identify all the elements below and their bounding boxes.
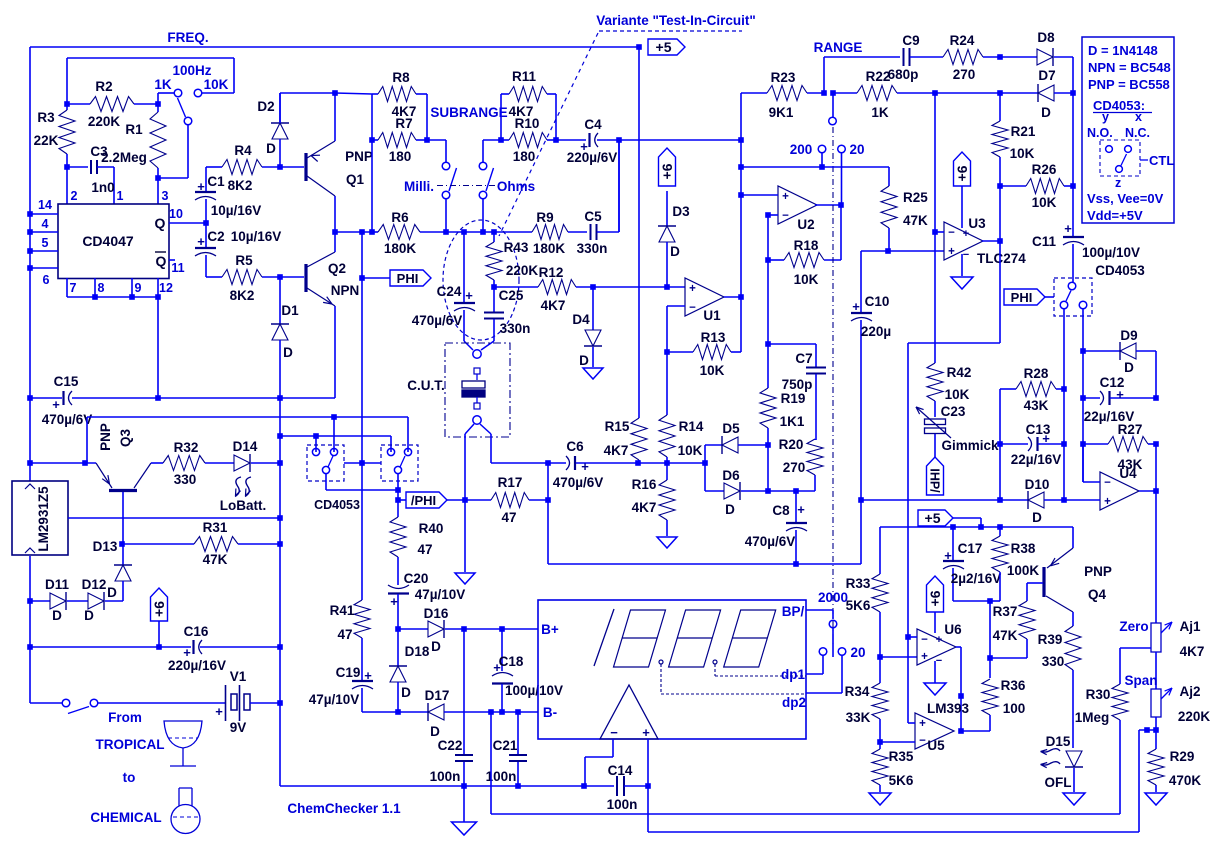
capacitor C10 [851, 312, 872, 314]
junction x464 y786 [461, 783, 467, 789]
U3 ground stub [961, 254, 963, 276]
wire R28 left corner [999, 389, 1001, 444]
CD4053 switch dashed box right [1054, 278, 1092, 316]
junction D10 right [1061, 497, 1067, 503]
resistor R19 [767, 344, 769, 388]
pin 12 wire [157, 278, 159, 297]
pin 14 wire [30, 213, 58, 215]
LED arrows D15 [1042, 749, 1061, 752]
wire bracket down to bus [371, 140, 373, 232]
main ground [452, 822, 477, 835]
svg-text:100µ/10V: 100µ/10V [1082, 245, 1140, 260]
junction R5 right base Q2 [277, 274, 283, 280]
wire U2 output [815, 204, 841, 206]
junction pin5 [27, 248, 33, 254]
box2 lever [400, 456, 405, 467]
svg-text:D12: D12 [82, 577, 107, 592]
svg-text:R26: R26 [1032, 162, 1057, 177]
junction rail x158 [155, 395, 161, 401]
svg-text:U3: U3 [968, 216, 986, 231]
op-amp U2 [778, 186, 817, 224]
wire D11-D12 [67, 600, 88, 602]
capacitor C17 [952, 527, 954, 560]
svg-text:Q: Q [156, 253, 167, 269]
svg-text:R31: R31 [203, 520, 228, 535]
svg-text:D: D [1032, 510, 1042, 525]
svg-text:1Meg: 1Meg [1075, 710, 1110, 725]
svg-text:+: + [1104, 496, 1111, 508]
junction x362 y278 PHI tap [359, 275, 365, 281]
svg-text:+: + [642, 725, 650, 740]
wire x1156 down to pot [1155, 444, 1157, 491]
svg-text:9: 9 [135, 281, 142, 295]
svg-text:D4: D4 [572, 312, 590, 327]
resistor R1 [157, 104, 159, 112]
resistor R16 [666, 463, 668, 480]
box1 contact bottom [322, 466, 329, 473]
svg-text:FREQ.: FREQ. [167, 30, 208, 45]
resistor R8 [372, 93, 378, 95]
svg-text:R18: R18 [794, 238, 819, 253]
svg-text:220K: 220K [88, 114, 121, 129]
wire D8 corner down [1072, 57, 1074, 93]
svg-text:NPN: NPN [331, 283, 360, 298]
wire dp2 link [841, 655, 843, 693]
resistor R6 [378, 225, 420, 240]
junction x30 y647 [27, 644, 33, 650]
wire Q3 base net y463 [30, 462, 96, 464]
wire R7 to milli contact [427, 139, 446, 141]
resistor R20 [807, 439, 823, 475]
svg-text:200: 200 [790, 142, 813, 157]
junction x446 y232 [443, 229, 449, 235]
capacitor C18 [501, 629, 503, 671]
svg-text:R42: R42 [947, 365, 972, 380]
svg-text:+: + [581, 459, 589, 474]
svg-text:100n: 100n [607, 797, 638, 812]
svg-text:D17: D17 [425, 688, 450, 703]
svg-text:330: 330 [1042, 654, 1065, 669]
wire Q4 base to R37 [1026, 583, 1028, 601]
transistor Q3 PNP [96, 463, 112, 488]
svg-text:7: 7 [70, 281, 77, 295]
switch S2 contact a [62, 699, 70, 707]
wire R30 top corner [1120, 647, 1151, 649]
junction +9 y647 [156, 644, 162, 650]
wire x768 feedback vertical [767, 260, 769, 344]
svg-text:C4: C4 [584, 117, 602, 132]
svg-text:100µ/10V: 100µ/10V [505, 683, 563, 698]
resistor R27 [1083, 443, 1108, 445]
box2 contact bottom [394, 466, 401, 473]
svg-text:−: − [782, 210, 789, 222]
junction x280 y647 [277, 644, 283, 650]
svg-text:R22: R22 [866, 69, 891, 84]
svg-text:+: + [197, 179, 205, 194]
svg-text:C8: C8 [772, 503, 790, 518]
svg-text:10K: 10K [1010, 146, 1035, 161]
svg-text:470µ/6V: 470µ/6V [412, 313, 463, 328]
crystal small square bottom [476, 397, 478, 403]
switch ohms contact top [479, 162, 487, 170]
capacitor C4 [588, 133, 590, 147]
svg-text:D: D [670, 244, 680, 259]
junction C8 top [793, 488, 799, 494]
svg-text:47K: 47K [993, 628, 1018, 643]
svg-text:+: + [1064, 221, 1072, 236]
svg-text:C3: C3 [90, 144, 108, 159]
svg-text:100n: 100n [430, 769, 461, 784]
svg-text:D18: D18 [405, 644, 430, 659]
svg-text:220K: 220K [1178, 709, 1211, 724]
wire R37 bottom [990, 657, 1027, 659]
junction base-D13 node [119, 541, 125, 547]
wire bottom rail y786 [280, 785, 614, 787]
svg-text:1K: 1K [154, 77, 172, 92]
junction R27 right [1153, 441, 1159, 447]
svg-text:330n: 330n [500, 321, 531, 336]
resistor R14 [666, 352, 668, 415]
svg-text:220µ: 220µ [861, 324, 891, 339]
wire R38 bottom corner [990, 600, 1000, 602]
box1 lever [328, 456, 333, 467]
junction D14 right [277, 460, 283, 466]
info dashed switch box [1100, 140, 1140, 176]
svg-text:+: + [948, 246, 955, 258]
svg-text:22µ/16V: 22µ/16V [1011, 452, 1062, 467]
mech link dashdot [437, 185, 495, 187]
junction D10 left [997, 497, 1003, 503]
svg-text:9+: 9+ [152, 601, 168, 617]
+9 flag lower-left [158, 621, 160, 647]
junction +5 drop [978, 524, 984, 530]
wire D5-D6 join vertical [767, 445, 769, 491]
wire x408 to box2 [407, 417, 409, 452]
wire Q2 collector up [334, 232, 336, 252]
svg-text:22K: 22K [34, 133, 59, 148]
diode D11 [50, 593, 66, 609]
svg-text:10µ/16V: 10µ/16V [211, 203, 262, 218]
diode D9 [1083, 350, 1120, 352]
svg-text:+: + [944, 548, 952, 563]
svg-text:33K: 33K [846, 710, 871, 725]
svg-text:C21: C21 [493, 738, 518, 753]
box1 contact topleft [312, 448, 319, 455]
junction U3 out [997, 238, 1003, 244]
wire bus y167 [741, 166, 889, 168]
svg-text:dp1: dp1 [781, 667, 805, 682]
svg-text:Zero: Zero [1119, 619, 1148, 634]
info box [1082, 37, 1174, 223]
opamp U7 display [600, 685, 658, 739]
junction D9 left [1080, 348, 1086, 354]
switch S2 lever [68, 707, 89, 714]
switch S1a contact 10K [194, 89, 202, 97]
resistor R26 [1000, 185, 1026, 187]
diode D7 [1038, 85, 1054, 101]
wire y436 net [280, 435, 391, 437]
switch range contact 200 [818, 145, 826, 153]
svg-text:R11: R11 [512, 69, 537, 84]
CD4053 dashed box1 [307, 445, 344, 481]
wire R10 to C4 [556, 139, 586, 141]
svg-text:8: 8 [98, 281, 105, 295]
junction pin4 [27, 229, 33, 235]
svg-text:C25: C25 [499, 288, 524, 303]
switch 2000 contact b [838, 648, 846, 656]
svg-text:PHI: PHI [1011, 290, 1033, 305]
svg-text:R10: R10 [515, 116, 540, 131]
svg-text:−: − [963, 249, 969, 261]
resistor R30 [1119, 648, 1121, 684]
wire left vertical rail [29, 47, 31, 214]
pin 7 wire [66, 278, 68, 297]
info contact y [1106, 146, 1113, 153]
svg-text:2: 2 [71, 189, 78, 203]
CUT top contact [473, 350, 481, 358]
svg-text:D6: D6 [722, 468, 740, 483]
svg-text:R27: R27 [1118, 422, 1143, 437]
junction C7 tap [765, 341, 771, 347]
svg-text:1n0: 1n0 [91, 180, 114, 195]
wire C16 rail y647 [30, 646, 191, 648]
wire Q1 emitter up [334, 93, 336, 141]
junction R2 left [64, 101, 70, 107]
junction R10 right [553, 137, 559, 143]
wire U3 output [982, 240, 1000, 242]
svg-text:D3: D3 [672, 204, 690, 219]
svg-text:D: D [283, 345, 293, 360]
op-amp U1 [685, 278, 724, 316]
resistor R10 [501, 139, 509, 141]
svg-text:−: − [936, 655, 942, 667]
+5 flag mid [918, 510, 953, 526]
svg-text:9+: 9+ [660, 164, 676, 180]
junction C8 bottom [793, 561, 799, 567]
R10R11 right bracket [555, 94, 557, 140]
capacitor C1 [205, 167, 207, 191]
wire x935 vertical [934, 93, 936, 232]
svg-text:R38: R38 [1011, 541, 1036, 556]
wire switch left leg x1064 [1063, 309, 1065, 501]
svg-text:R3: R3 [37, 110, 55, 125]
svg-text:D9: D9 [1120, 328, 1137, 343]
svg-text:470µ/6V: 470µ/6V [42, 412, 93, 427]
resistor R7 [372, 139, 378, 141]
junction D5 right [765, 442, 771, 448]
wire 200 contact down [821, 153, 823, 167]
resistor R34 [879, 657, 881, 683]
svg-text:y: y [1102, 110, 1109, 124]
svg-text:3: 3 [162, 189, 169, 203]
svg-text:PHI: PHI [397, 271, 419, 286]
svg-text:12: 12 [159, 281, 173, 295]
svg-text:CD4053: CD4053 [314, 498, 360, 512]
wire x908 down [907, 343, 909, 637]
svg-text:R12: R12 [539, 265, 564, 280]
wire x1000 U3out vertical [999, 186, 1001, 241]
capacitor C13 [1000, 443, 1028, 445]
transistor Q2 NPN [280, 276, 304, 278]
junction R33 bottom [877, 654, 883, 660]
wire C7 loop top [768, 343, 816, 345]
junction R24-D8 [997, 54, 1003, 60]
U3 power +9 flag [954, 152, 971, 186]
svg-text:R24: R24 [950, 33, 975, 48]
junction R12 right [590, 284, 596, 290]
junction R7 left [369, 137, 375, 143]
op-amp U4 [1100, 472, 1139, 510]
svg-text:R7: R7 [395, 116, 412, 131]
junction Q-C1-C2 [203, 220, 209, 226]
wire D12 to D13 [105, 600, 123, 602]
chemical flask icon [179, 788, 192, 806]
svg-text:PNP: PNP [1084, 564, 1112, 579]
svg-text:C7: C7 [795, 351, 812, 366]
junction U2 minus corner [765, 212, 771, 218]
svg-text:R37: R37 [993, 604, 1018, 619]
svg-text:R16: R16 [632, 477, 657, 492]
wire C14 net to pots [647, 786, 649, 832]
wire range common stub [832, 93, 834, 117]
resistor R43 [493, 232, 495, 242]
junction C4 right [616, 137, 622, 143]
wire pin2 [66, 167, 68, 204]
svg-text:D11: D11 [45, 577, 70, 592]
capacitor C11 [1063, 236, 1084, 238]
svg-text:D13: D13 [93, 539, 118, 554]
tropical glass icon [164, 721, 202, 748]
svg-text:220µ/16V: 220µ/16V [168, 658, 226, 673]
variante dashed ellipse [443, 220, 519, 340]
svg-text:10K: 10K [1032, 195, 1057, 210]
box2 contact topleft [387, 448, 394, 455]
svg-text:470µ/6V: 470µ/6V [553, 475, 604, 490]
svg-text:D: D [725, 502, 735, 517]
wire U1 minus [667, 305, 685, 307]
svg-text:C11: C11 [1032, 234, 1057, 249]
svg-text:+: + [689, 283, 696, 295]
junction rail x30 [27, 395, 33, 401]
wire R6 to R9 [446, 231, 532, 233]
wire pot Aj2 to R29 [1155, 717, 1157, 749]
info CTL stub [1140, 159, 1148, 161]
svg-text:+: + [797, 502, 805, 517]
junction C12 right [1153, 395, 1159, 401]
svg-text:C14: C14 [608, 763, 633, 778]
svg-text:9V: 9V [230, 720, 247, 735]
switch milli contact top [442, 162, 450, 170]
svg-text:Vdd=+5V: Vdd=+5V [1087, 208, 1143, 223]
junction pin6 [27, 265, 33, 271]
svg-text:N.C.: N.C. [1125, 126, 1150, 140]
junction x741 y195 [738, 192, 744, 198]
svg-text:R21: R21 [1011, 124, 1036, 139]
CUT bottom contact [473, 416, 481, 424]
pin 4 wire [30, 231, 58, 233]
junction x518 y786 [515, 783, 521, 789]
svg-text:10K: 10K [700, 363, 725, 378]
svg-text:5: 5 [42, 236, 49, 250]
svg-text:CHEMICAL: CHEMICAL [90, 810, 161, 825]
junction U4 out [1153, 488, 1159, 494]
box2 contact topright [404, 448, 411, 455]
svg-text:+: + [936, 634, 942, 646]
diode D1 [279, 277, 281, 324]
svg-text:R17: R17 [498, 475, 523, 490]
resistor R24 [943, 50, 983, 65]
junction pin14 [27, 211, 33, 217]
variante dashed underline [599, 30, 742, 32]
svg-text:D: D [579, 353, 589, 368]
diode D16 [398, 628, 428, 630]
svg-text:4: 4 [42, 217, 49, 231]
svg-text:C.U.T.: C.U.T. [407, 378, 445, 393]
transistor Q1 PNP [280, 166, 304, 168]
svg-text:47K: 47K [203, 552, 228, 567]
svg-text:Q4: Q4 [1088, 587, 1107, 602]
svg-text:1: 1 [117, 189, 124, 203]
junction x1000 y93 [997, 90, 1003, 96]
wire U5 minus [880, 741, 915, 743]
switch milli contact bottom [442, 191, 450, 199]
wire x1073 down [1072, 93, 1074, 186]
junction x491 y712 [488, 709, 494, 715]
junction y436 x316 [313, 433, 319, 439]
svg-text:CTL: CTL [1149, 153, 1174, 168]
junction x861 y500 [858, 497, 864, 503]
svg-text:D: D [1041, 105, 1051, 120]
junction x85 y463 [82, 460, 88, 466]
IC U9 LM2931Z5 box [12, 481, 68, 555]
svg-text:D: D [266, 141, 276, 156]
svg-text:2000: 2000 [818, 590, 848, 605]
wire U7 minus [612, 739, 614, 757]
ground under R29 [1145, 793, 1167, 805]
wire U2 plus [741, 194, 778, 196]
svg-text:B+: B+ [541, 622, 559, 637]
svg-text:LM2931Z5: LM2931Z5 [36, 486, 51, 552]
junction U5 minus [877, 739, 883, 745]
svg-text:D: D [84, 608, 94, 623]
wire C10 row y251 [861, 250, 944, 252]
wire BP to 2000 switch [806, 609, 833, 611]
wire switch to battery [98, 702, 225, 704]
svg-text:TROPICAL: TROPICAL [96, 737, 165, 752]
diode D4 [592, 287, 594, 330]
svg-text:D2: D2 [257, 99, 274, 114]
svg-text:Milli.: Milli. [404, 179, 434, 194]
switch milli lever [449, 168, 457, 191]
resistor R21 [992, 121, 1008, 157]
svg-text:D8: D8 [1037, 30, 1055, 45]
svg-text:5K6: 5K6 [846, 598, 871, 613]
svg-text:R41: R41 [330, 603, 355, 618]
svg-text:+: + [782, 191, 789, 203]
junction x502 y712 [499, 709, 505, 715]
wire CUT left leg [465, 424, 474, 434]
svg-text:D: D [52, 608, 62, 623]
junction rail x280 [277, 395, 283, 401]
wire box2 bottom [397, 474, 399, 500]
wire Q2 emitter down [334, 306, 336, 398]
svg-text:11: 11 [171, 261, 184, 275]
resistor R12 [494, 286, 538, 288]
capacitor C8 [795, 491, 797, 522]
svg-text:+: + [963, 228, 969, 240]
wire C25 to CUT contact [481, 341, 494, 350]
junction x30 y463 [27, 460, 33, 466]
